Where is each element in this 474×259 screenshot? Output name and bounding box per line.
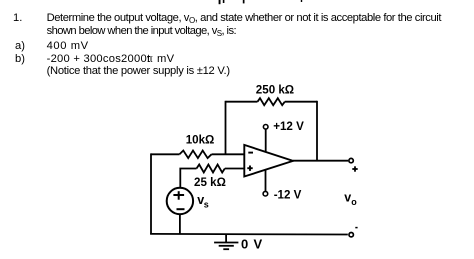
label vo bbox=[344, 191, 357, 208]
op-amp plus input sign bbox=[247, 166, 252, 171]
wire noninverting left segment bbox=[180, 169, 196, 189]
op-amp U1 bbox=[244, 145, 293, 177]
ground bbox=[214, 234, 238, 249]
wire source bottom stub bbox=[179, 214, 181, 234]
source VS circle bbox=[167, 188, 193, 214]
resistor 250k feedback bbox=[258, 98, 285, 105]
label vs bbox=[197, 193, 209, 209]
+12V terminal circle bbox=[263, 125, 268, 130]
resistor 25k bbox=[197, 165, 225, 173]
wire feedback left vertical bbox=[225, 101, 227, 155]
svg-text:s: s bbox=[204, 199, 209, 209]
resistor 10k bbox=[180, 151, 212, 159]
wire bottom bbox=[150, 233, 348, 236]
output terminal + circle bbox=[349, 158, 353, 162]
-12V supply wire bbox=[265, 170, 267, 191]
output plus sign bbox=[352, 166, 357, 171]
svg-text:o: o bbox=[351, 197, 357, 207]
wire inverting input right segment bbox=[212, 153, 245, 155]
source minus sign bbox=[177, 208, 185, 210]
svg-text:0 V: 0 V bbox=[241, 237, 263, 252]
wire feedback right vertical bbox=[316, 101, 318, 161]
svg-text:+12 V: +12 V bbox=[273, 120, 304, 133]
svg-text:v: v bbox=[344, 191, 351, 205]
wire noninverting right segment bbox=[225, 168, 245, 170]
stray marks (cropped text from previous line) bbox=[219, 0, 303, 4]
op-amp minus input sign bbox=[248, 152, 253, 154]
wire feedback top left segment bbox=[226, 101, 258, 103]
source plus sign bbox=[173, 191, 184, 200]
output minus sign bbox=[355, 227, 357, 229]
+12V supply wire bbox=[265, 129, 267, 152]
svg-text:25 kΩ: 25 kΩ bbox=[194, 176, 226, 189]
-12V terminal circle bbox=[263, 191, 268, 196]
wire left vertical bbox=[150, 153, 152, 234]
svg-text:250 kΩ: 250 kΩ bbox=[256, 84, 294, 97]
output terminal - circle bbox=[349, 233, 353, 237]
wire feedback top right segment bbox=[285, 101, 317, 103]
wire inverting input left segment bbox=[151, 153, 180, 155]
svg-text:10kΩ: 10kΩ bbox=[186, 134, 215, 147]
svg-text:-12 V: -12 V bbox=[274, 188, 302, 201]
wire output bbox=[293, 160, 348, 162]
